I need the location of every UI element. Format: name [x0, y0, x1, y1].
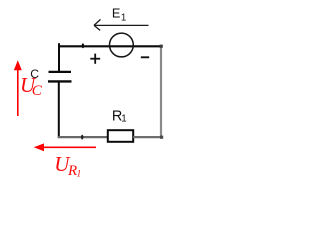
- wire bottom left segment: [58, 136, 108, 138]
- svg-text:1: 1: [121, 12, 126, 23]
- node tick on bottom wire: [81, 135, 83, 140]
- red arrow UR1 (points left): [41, 146, 96, 148]
- wire bottom right segment: [133, 136, 162, 138]
- svg-text:1: 1: [121, 114, 126, 125]
- wire top horizontal: [58, 45, 162, 47]
- plus sign: [90, 58, 100, 60]
- junction dot top right: [160, 45, 163, 48]
- node tick on top wire: [82, 43, 84, 48]
- red arrow UC (points up): [17, 67, 19, 116]
- wire left vertical upper (corner stub + down to capacitor): [58, 43, 60, 72]
- capacitor C bottom plate: [48, 80, 72, 82]
- source E1 circle: [110, 33, 134, 57]
- wire left vertical lower: [58, 81, 60, 138]
- wire right vertical: [160, 46, 162, 139]
- resistor R1 body: [108, 130, 133, 142]
- minus sign: [141, 56, 149, 58]
- svg-text:E: E: [112, 6, 121, 21]
- arrow for E1 (points left): [94, 19, 149, 30]
- junction dot bottom right: [160, 136, 163, 139]
- capacitor C top plate: [49, 71, 72, 73]
- svg-text:1: 1: [77, 170, 82, 180]
- svg-text:C: C: [32, 83, 43, 99]
